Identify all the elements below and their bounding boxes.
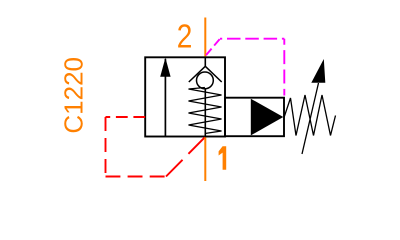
check valve ball [197,72,214,89]
pilot line (magenta dashed), diagonal segment [205,39,220,56]
wire: port 1 line (orange) [204,137,206,181]
drain line (red dashed), bottom horizontal segment [106,176,167,178]
drain line (red dashed), segment to left [106,116,146,118]
pilot flow triangle [251,99,283,136]
pilot line (magenta dashed), vertical segment [283,39,285,96]
spring (inside valve) [189,88,222,134]
adjustment arrow shaft [302,83,319,154]
check valve stem (bottom) [204,88,206,136]
node 1 label [219,146,227,169]
drain line (red dashed), vertical segment [105,117,107,177]
free-flow arrowhead [160,58,170,77]
pilot stage box [225,98,284,137]
valve body box [145,57,225,136]
svg-text:C1220: C1220 [58,57,88,134]
drain line (red dashed), diagonal segment [166,137,205,176]
wire: port 2 line (orange) [204,18,206,57]
check valve seat [189,66,222,82]
free-flow arrow line [164,59,166,137]
svg-text:2: 2 [177,19,193,56]
adjustable spring (right) [284,95,336,136]
check valve stem (top) [204,57,206,66]
adjustment arrowhead [311,59,325,83]
pilot line (magenta dashed), horizontal segment [220,38,284,40]
